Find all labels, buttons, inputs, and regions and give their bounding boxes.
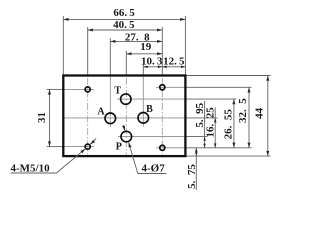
svg-text:40. 5: 40. 5 [113, 19, 135, 31]
centerline TL-BL holes vertical [87, 78, 89, 154]
port P [121, 131, 132, 142]
dimension 32.5 [237, 87, 250, 148]
extension line port B centerline up [142, 64, 144, 76]
extension line port A centerline up [109, 38, 111, 75]
crosshair port T horizontal [117, 98, 184, 100]
dimension 5.95 [194, 101, 206, 148]
centerline port B inside [142, 77, 144, 127]
dimension 19 [126, 41, 162, 55]
leader 4-M5/10 [11, 138, 97, 174]
mounting hole TR [160, 85, 165, 90]
svg-text:T: T [114, 86, 121, 97]
dimension 10.3 [141, 55, 163, 68]
svg-text:26. 55: 26. 55 [223, 109, 235, 140]
svg-text:16. 25: 16. 25 [205, 107, 217, 138]
svg-text:19: 19 [140, 41, 152, 53]
svg-text:10. 3: 10. 3 [141, 55, 163, 67]
extension line bottom edge right [187, 155, 271, 157]
port A [105, 113, 116, 124]
svg-text:5. 75: 5. 75 [186, 164, 198, 189]
extension line T/P centerline up [125, 51, 127, 76]
extension line A-B right [184, 117, 217, 119]
port label B [146, 104, 153, 115]
centerline T-P vertical [125, 78, 127, 155]
dimension 44 [254, 76, 270, 157]
centerline A-B horizontal [64, 117, 185, 119]
port label P [116, 142, 122, 153]
extension line TR hole right [184, 86, 251, 88]
svg-text:4-M5/10: 4-M5/10 [11, 163, 51, 175]
port B [138, 113, 149, 124]
extension line TL hole left [47, 88, 63, 90]
dimension 66.5 [63, 7, 185, 21]
svg-text:44: 44 [254, 107, 266, 119]
extension line TL hole centerline up [87, 27, 89, 76]
svg-text:32. 5: 32. 5 [237, 98, 249, 123]
svg-text:B: B [146, 104, 153, 115]
centerline TR-BR holes vertical [161, 78, 163, 154]
extension line TR hole centerline up [161, 27, 163, 76]
dimension 16.25 [205, 107, 217, 148]
crosshair BL hole horizontal [63, 146, 94, 148]
port label A [97, 106, 105, 117]
dimension 26.55 [223, 99, 236, 148]
body outline rectangle [63, 76, 185, 157]
dimension 5.75 [186, 148, 198, 190]
svg-text:A: A [97, 106, 105, 117]
svg-text:31: 31 [36, 112, 48, 123]
extension line top edge right [187, 75, 271, 77]
extension line port T right [184, 98, 236, 100]
leader 4-diameter7 [122, 125, 166, 175]
dimension 12.5 [162, 55, 185, 68]
mounting hole TL [85, 87, 90, 92]
extension line port P right [184, 136, 207, 138]
dimension 40.5 [88, 19, 163, 31]
mounting hole BL [85, 144, 90, 149]
dimension 31 [36, 89, 51, 146]
svg-text:12. 5: 12. 5 [163, 55, 185, 67]
centerline port A inside [109, 77, 111, 128]
crosshair port P horizontal [118, 136, 184, 138]
extension line right edge (top) [184, 16, 186, 75]
svg-text:66. 5: 66. 5 [113, 7, 135, 19]
svg-text:4-Ø7: 4-Ø7 [142, 163, 166, 175]
crosshair TR hole horizontal [156, 86, 184, 88]
svg-text:P: P [116, 142, 122, 153]
dimension 27.8 [110, 32, 162, 44]
mounting hole BR [160, 145, 165, 150]
port T [121, 94, 131, 104]
crosshair TL hole horizontal [63, 88, 94, 90]
port label T [114, 86, 121, 97]
extension line left edge (top) [62, 16, 64, 75]
crosshair BR hole horizontal [156, 147, 184, 149]
extension line BR hole right [184, 147, 251, 149]
extension line BL hole left [47, 146, 63, 148]
